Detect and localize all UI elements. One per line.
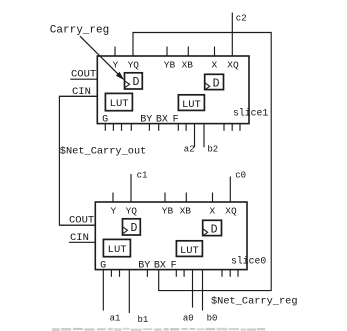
svg-text:D: D [130, 222, 137, 235]
slice1 box [97, 56, 249, 124]
annotation arrow to D flip-flop [80, 36, 121, 77]
svg-text:b1: b1 [138, 315, 149, 325]
svg-text:LUT: LUT [180, 245, 199, 257]
input a1 wire [102, 270, 104, 311]
slice1 top pin stubs Y YB XB X [114, 47, 116, 57]
slice1 flip-flop D (Y register) [125, 73, 143, 89]
wire $Net_Carry_reg (slice1 YQ to slice0 BX) [133, 33, 271, 291]
input c0 wire (slice0 XQ) [229, 177, 231, 203]
svg-text:YQ: YQ [128, 59, 140, 70]
slice0 LUT (F) [176, 241, 202, 257]
svg-text:XB: XB [182, 59, 194, 70]
input b0 wire [202, 270, 204, 311]
svg-text:F: F [173, 114, 179, 125]
svg-text:BX: BX [154, 260, 166, 271]
svg-text:b0: b0 [207, 313, 218, 323]
svg-text:LUT: LUT [182, 99, 201, 111]
svg-text:slice0: slice0 [231, 255, 266, 266]
svg-text:c1: c1 [137, 170, 148, 180]
svg-text:X: X [212, 59, 218, 70]
svg-text:b2: b2 [207, 144, 218, 154]
svg-text:XQ: XQ [225, 205, 237, 216]
slice0 top pin stubs Y YB XB X [112, 193, 114, 203]
svg-text:D: D [213, 77, 220, 90]
svg-text:BX: BX [156, 114, 168, 125]
slice0 box [95, 202, 247, 270]
svg-text:YB: YB [162, 205, 174, 216]
svg-text:$Net_Carry_reg: $Net_Carry_reg [211, 296, 298, 308]
svg-text:Carry_reg: Carry_reg [50, 25, 109, 37]
svg-text:a1: a1 [110, 314, 121, 324]
slice0 LUT (G) [103, 239, 130, 256]
svg-text:D: D [211, 223, 218, 236]
svg-text:a0: a0 [183, 313, 194, 323]
svg-text:c0: c0 [235, 170, 246, 180]
input a0 wire [192, 270, 194, 308]
svg-text:$Net_Carry_out: $Net_Carry_out [60, 146, 147, 158]
slice0 flip-flop D (X register) [203, 220, 222, 235]
svg-text:c2: c2 [236, 14, 247, 24]
svg-text:YQ: YQ [126, 205, 138, 216]
svg-text:YB: YB [164, 59, 176, 70]
slice1 LUT (G) [105, 93, 132, 110]
svg-text:XB: XB [180, 205, 192, 216]
svg-text:a2: a2 [184, 144, 195, 154]
caption remnant (cropped text row) [52, 328, 60, 331]
input b1 wire [128, 270, 130, 313]
slice1 bottom pin stubs [104, 124, 106, 131]
svg-text:X: X [210, 205, 216, 216]
slice0 bottom pin stubs [110, 270, 112, 277]
input c1 wire (slice0 YQ) [130, 174, 132, 202]
svg-text:slice1: slice1 [233, 108, 268, 119]
svg-text:BY: BY [140, 114, 152, 125]
slice1 flip-flop D (X register) [205, 74, 224, 89]
input a2 wire [194, 124, 196, 148]
svg-text:LUT: LUT [110, 98, 129, 110]
svg-text:Y: Y [110, 205, 116, 216]
svg-text:XQ: XQ [227, 59, 239, 70]
wire $Net_Carry_out (slice0 COUT to slice1 CIN) [59, 96, 97, 225]
svg-text:LUT: LUT [108, 244, 127, 256]
input c2 wire (slice1 XQ) [231, 13, 233, 57]
svg-text:F: F [171, 260, 177, 271]
slice1 LUT (F) [178, 95, 204, 111]
input b2 wire [203, 124, 205, 148]
svg-text:D: D [132, 76, 139, 89]
slice0 flip-flop D (Y register) [123, 219, 141, 235]
svg-text:BY: BY [138, 260, 150, 271]
